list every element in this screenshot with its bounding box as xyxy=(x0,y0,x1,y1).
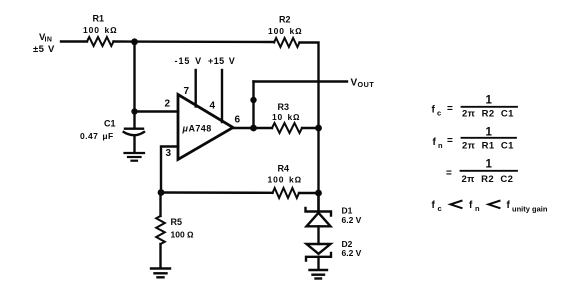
svg-text:A748: A748 xyxy=(189,124,212,134)
svg-text:R2: R2 xyxy=(279,15,291,25)
svg-text:1: 1 xyxy=(486,95,493,107)
svg-text:2π R1 C1: 2π R1 C1 xyxy=(462,141,514,152)
svg-text:4: 4 xyxy=(210,101,216,112)
resistor R5 xyxy=(156,216,165,244)
svg-text:100 kΩ: 100 kΩ xyxy=(268,26,303,36)
formula fc < fn < f unity gain xyxy=(432,200,442,213)
svg-text:R1: R1 xyxy=(93,14,105,24)
wire R3 to right rail xyxy=(302,127,319,129)
svg-text:6.2 V: 6.2 V xyxy=(342,248,362,258)
svg-text:n: n xyxy=(475,204,480,213)
svg-text:f: f xyxy=(433,137,437,148)
svg-text:unity gain: unity gain xyxy=(512,205,548,214)
wire R5 to ground xyxy=(159,244,161,268)
svg-text:R4: R4 xyxy=(278,164,290,174)
node junction R3/right rail xyxy=(315,125,322,132)
svg-text:f: f xyxy=(469,200,473,211)
ground under diodes xyxy=(310,270,328,279)
node junction R4/right rail xyxy=(315,190,322,197)
wire C1 to ground xyxy=(133,136,135,153)
svg-text:2π R2 C1: 2π R2 C1 xyxy=(462,109,514,120)
svg-text:7: 7 xyxy=(184,86,190,97)
node dot on VOUT branch xyxy=(250,97,256,103)
svg-text:μ: μ xyxy=(182,124,189,134)
svg-text:6.2 V: 6.2 V xyxy=(342,215,362,225)
svg-text:C1: C1 xyxy=(104,119,116,129)
formula fc = 1/(2pi R2 C1) xyxy=(432,95,515,120)
wire right rail into D1 xyxy=(317,193,319,212)
wire op-amp output pin 6 to R3 xyxy=(233,127,272,129)
wire R4 to right rail xyxy=(299,192,319,194)
svg-text:1: 1 xyxy=(486,127,493,139)
wire R2 to right rail corner xyxy=(300,43,319,212)
resistor R3 xyxy=(272,123,302,133)
svg-text:100 Ω: 100 Ω xyxy=(171,230,195,240)
svg-text:100 kΩ: 100 kΩ xyxy=(83,25,118,35)
wire VIN to R1 xyxy=(61,40,87,42)
wire D2 to ground xyxy=(317,257,319,270)
resistor R4 xyxy=(273,188,300,198)
node junction output/VOUT branch xyxy=(250,125,257,132)
wire node to R5 xyxy=(159,193,161,217)
wire D1 to D2 xyxy=(317,226,319,244)
svg-text:=: = xyxy=(446,168,452,179)
svg-text:R5: R5 xyxy=(171,217,183,227)
capacitor C1 xyxy=(125,127,143,129)
svg-text:-15 V: -15 V xyxy=(175,56,203,66)
svg-text:=: = xyxy=(447,136,453,147)
diode D1 (zener, cathode up) xyxy=(306,208,332,226)
op-amp U1 uA748 xyxy=(178,95,233,160)
svg-text:3: 3 xyxy=(166,148,172,159)
svg-text:100 kΩ: 100 kΩ xyxy=(268,175,303,185)
wire output node up to VOUT line xyxy=(252,82,254,129)
node VIN input label xyxy=(33,32,55,55)
svg-text:2π R2 C2: 2π R2 C2 xyxy=(462,174,514,185)
wire to op-amp pin 2 xyxy=(135,110,179,112)
svg-text:D1: D1 xyxy=(342,206,353,216)
less-than sign 2 xyxy=(489,201,500,208)
svg-text:0.47 μF: 0.47 μF xyxy=(80,131,114,141)
svg-text:n: n xyxy=(438,141,443,150)
formula term f unity gain xyxy=(507,200,548,214)
svg-text:IN: IN xyxy=(45,37,53,44)
svg-text:6: 6 xyxy=(235,115,241,126)
wire VOUT line xyxy=(254,80,348,82)
svg-text:+15 V: +15 V xyxy=(208,56,235,66)
diode D2 (zener, cathode down) xyxy=(306,244,331,261)
svg-text:V: V xyxy=(351,78,358,89)
svg-text:=: = xyxy=(447,104,453,115)
less-than sign 1 xyxy=(451,201,462,208)
formula fn = 1/(2pi R1 C1) xyxy=(433,127,515,152)
svg-text:R3: R3 xyxy=(278,102,290,112)
wire R1 to R2 (top rail) xyxy=(114,40,275,43)
svg-text:10 kΩ: 10 kΩ xyxy=(272,112,300,122)
resistor R2 xyxy=(274,38,300,47)
wire feedback node to R4 xyxy=(161,191,273,194)
formula term fn xyxy=(469,200,480,213)
svg-text:f: f xyxy=(432,200,436,211)
wire pin 3 jog to feedback node xyxy=(161,147,178,193)
svg-text:c: c xyxy=(438,204,442,213)
formula = 1/(2pi R2 C2) xyxy=(446,159,513,186)
ground under C1 xyxy=(125,153,145,161)
ground under R5 xyxy=(151,269,170,278)
resistor R1 xyxy=(87,37,114,46)
node junction pin3/R5/R4 xyxy=(158,189,165,196)
wire pin 4 to V+ supply xyxy=(221,70,223,122)
svg-text:1: 1 xyxy=(486,159,493,171)
node junction R1/C1 xyxy=(131,38,138,45)
node VOUT label xyxy=(351,78,375,90)
wire junction down to C1 xyxy=(133,42,135,128)
wire pin 7 to V- supply xyxy=(194,70,196,107)
svg-text:OUT: OUT xyxy=(358,80,375,89)
svg-text:f: f xyxy=(507,200,511,211)
svg-text:c: c xyxy=(437,109,441,118)
svg-text:f: f xyxy=(432,105,436,116)
svg-text:2: 2 xyxy=(165,99,171,110)
svg-text:±5 V: ±5 V xyxy=(33,44,55,55)
node junction pin2 branch xyxy=(131,108,137,114)
